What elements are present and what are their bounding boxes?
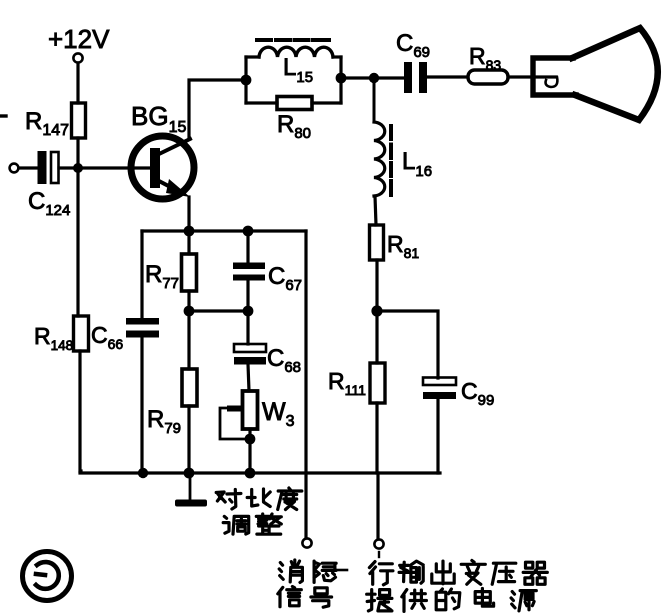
- bottom rail wire: [80, 471, 440, 474]
- capacitor C67: [246, 231, 249, 263]
- node: L15 right: [336, 73, 347, 84]
- label: flyback-power line1 (xing shu chu bian ya qi): [369, 561, 547, 585]
- node: L15 left: [241, 75, 252, 86]
- logo inner arc: [36, 562, 59, 589]
- label: contrast-adjust line2 (tiao zheng): [223, 514, 281, 534]
- wire C124 to transistor base: [59, 166, 152, 169]
- capacitor C124: [39, 152, 46, 183]
- node: C69 / L16 junction: [369, 73, 379, 83]
- resistor R77: [187, 231, 190, 254]
- wire R148 to bottom rail: [80, 351, 81, 471]
- blanking terminal: [302, 538, 311, 547]
- node: W3 bottom: [245, 468, 256, 479]
- node: C67 top: [243, 226, 254, 237]
- resistor R83: [468, 70, 508, 84]
- wire collector up to L15: [189, 80, 246, 138]
- capacitor C68: [246, 311, 249, 344]
- wire L16 to R81: [375, 196, 376, 225]
- wire C69 to R83: [427, 75, 468, 78]
- emitter network box top wire: [142, 229, 306, 232]
- wire +12V to R147: [76, 63, 79, 103]
- wire R83 to CRT: [508, 75, 556, 78]
- node: W3 wiper tie: [245, 434, 256, 445]
- node: C67 bottom: [243, 306, 254, 317]
- wire R81 to node: [375, 260, 378, 311]
- node: C66 bottom: [138, 468, 148, 478]
- capacitor C69: [379, 76, 404, 79]
- capacitor C99: [423, 378, 456, 386]
- resistor R148: [74, 316, 89, 351]
- input terminal: [10, 164, 19, 173]
- wire node to C99 branch: [377, 311, 438, 378]
- CRT tube: [533, 58, 576, 95]
- capacitor C66: [126, 318, 159, 325]
- mid wire: [189, 309, 248, 312]
- power terminal: [374, 539, 383, 548]
- node: base junction: [73, 163, 83, 173]
- left edge down to C66: [140, 231, 143, 318]
- stray mark left edge: [0, 114, 6, 117]
- resistor R79: [187, 311, 190, 369]
- resistor R80: [246, 101, 277, 104]
- L15 core dashes: [257, 38, 329, 42]
- potentiometer W3: [243, 391, 258, 429]
- node: R111/C99 top: [371, 305, 382, 316]
- transistor BG15: [131, 136, 194, 199]
- resistor R147: [72, 103, 86, 138]
- blanking line (box right edge): [304, 231, 307, 538]
- +12V terminal: [73, 53, 82, 62]
- resistor R111: [375, 311, 378, 363]
- node: R79 bottom: [184, 468, 195, 479]
- stray dash left of flyback text: [337, 569, 347, 572]
- label: contrast-adjust line1 (dui bi du): [216, 488, 302, 510]
- label: blanking-signal line2 (xin hao): [278, 587, 332, 608]
- inductor L16: [373, 83, 376, 122]
- wire L15 to C69 node: [341, 76, 374, 79]
- inductor L15 with R80 parallel: [244, 57, 247, 103]
- wire emitter down to box: [187, 197, 190, 231]
- resistor R81: [370, 225, 384, 260]
- L16 core dashes: [389, 126, 393, 195]
- svg-text:+12V: +12V: [48, 24, 110, 54]
- CRT heater hook: [546, 77, 558, 87]
- ground: [189, 473, 192, 500]
- label: flyback-power line2 (ti gong de dian yuan): [367, 589, 537, 612]
- wire R147 to base node: [76, 138, 79, 316]
- node: R77 bottom: [184, 306, 195, 317]
- node: emitter / R77 top: [184, 226, 195, 237]
- logo outer circle: [23, 552, 72, 601]
- label: blanking-signal line1 (xiao yin): [279, 560, 336, 582]
- wire to power terminal: [376, 473, 379, 539]
- wire input to C124: [19, 166, 37, 169]
